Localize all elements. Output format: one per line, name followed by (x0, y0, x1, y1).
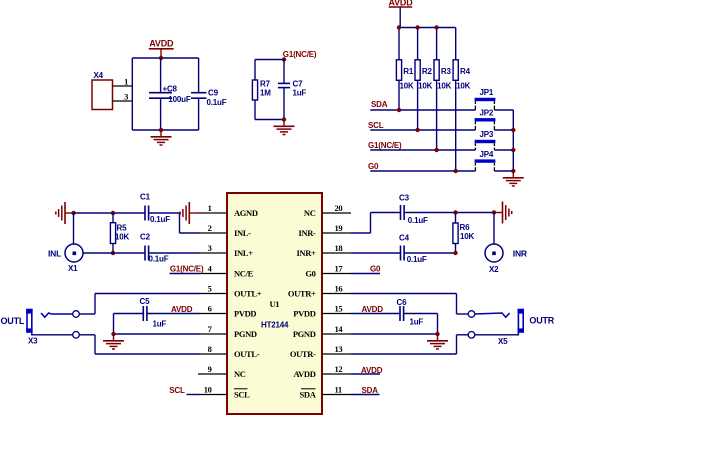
junction (492, 210, 496, 214)
svg-text:0.1uF: 0.1uF (207, 98, 227, 107)
wire (83, 252, 145, 254)
svg-text:0.1uF: 0.1uF (408, 216, 428, 225)
svg-text:OUTR: OUTR (529, 316, 554, 326)
wire (255, 60, 284, 120)
svg-text:14: 14 (335, 324, 344, 334)
resistor R4 10K (453, 28, 471, 172)
wire (351, 294, 468, 315)
svg-text:AVDD: AVDD (361, 366, 383, 375)
node G1 junction (282, 57, 286, 61)
capacitor C9 0.1uF (191, 58, 227, 130)
svg-text:PGND: PGND (234, 329, 257, 339)
junction (453, 210, 457, 214)
svg-text:SCL: SCL (234, 390, 250, 400)
junction (111, 251, 115, 255)
svg-text:PGND: PGND (293, 329, 316, 339)
svg-text:R7: R7 (260, 80, 271, 89)
capacitor C3 0.1uF (399, 194, 428, 225)
svg-text:OUTL: OUTL (1, 316, 25, 326)
svg-text:OUTR+: OUTR+ (288, 289, 316, 299)
wire (149, 213, 199, 233)
net label G0 pin17 (351, 264, 381, 273)
node G0 (368, 162, 475, 173)
wire (79, 294, 199, 315)
capacitor C5 1uF (140, 297, 200, 329)
svg-text:0.1uF: 0.1uF (407, 255, 427, 264)
ground (274, 120, 295, 135)
svg-text:R5: R5 (117, 223, 128, 232)
svg-text:SDA: SDA (362, 386, 379, 395)
svg-text:OUTR-: OUTR- (290, 349, 316, 359)
svg-text:AGND: AGND (234, 208, 258, 218)
junction (397, 25, 401, 29)
svg-text:18: 18 (335, 243, 343, 253)
junction (453, 251, 457, 255)
net label AVDD pin6 (171, 305, 193, 314)
wire (399, 27, 456, 29)
svg-text:R3: R3 (441, 67, 452, 76)
svg-text:10K: 10K (400, 82, 414, 91)
ground AGND left (56, 202, 74, 224)
node AVDD junction (159, 56, 163, 60)
junction (415, 25, 419, 29)
svg-text:C2: C2 (140, 233, 151, 242)
svg-text:JP4: JP4 (480, 150, 494, 159)
node G1(NC/E) (368, 141, 475, 152)
svg-text:SCL: SCL (368, 121, 384, 130)
svg-text:INR+: INR+ (296, 248, 316, 258)
jack X1 INL (48, 213, 83, 273)
capacitor C4 0.1uF (399, 234, 427, 264)
svg-text:3: 3 (208, 243, 212, 253)
svg-text:C7: C7 (293, 80, 304, 89)
svg-text:0.1uF: 0.1uF (150, 215, 170, 224)
svg-text:10K: 10K (115, 233, 129, 242)
svg-text:X5: X5 (498, 337, 508, 346)
svg-text:SCL: SCL (169, 386, 185, 395)
ground AGND pin1 (180, 202, 199, 224)
junction (111, 211, 115, 215)
svg-text:INR: INR (513, 248, 527, 258)
ground (427, 334, 448, 349)
svg-text:16: 16 (335, 284, 343, 294)
jack X3 OUTL (1, 309, 80, 346)
svg-text:SDA: SDA (371, 100, 388, 109)
svg-text:11: 11 (335, 385, 342, 395)
capacitor C7 1uF (278, 60, 307, 120)
svg-text:1uF: 1uF (293, 88, 307, 97)
svg-text:PVDD: PVDD (293, 309, 315, 319)
svg-text:G1(NC/E): G1(NC/E) (283, 50, 317, 59)
jack X2 INR (485, 213, 527, 274)
jumper JP4 (475, 150, 514, 171)
wire (351, 252, 401, 254)
svg-text:2: 2 (208, 223, 212, 233)
svg-text:0.1uF: 0.1uF (149, 255, 169, 264)
svg-text:10K: 10K (437, 82, 451, 91)
capacitor C1 0.1uF (140, 193, 170, 224)
junction (435, 332, 439, 336)
net label AVDD pin15 (362, 305, 384, 314)
wire (404, 252, 455, 254)
svg-text:17: 17 (335, 264, 344, 274)
svg-text:5: 5 (208, 284, 212, 294)
svg-text:NC: NC (234, 369, 246, 379)
svg-text:1: 1 (208, 203, 212, 213)
svg-text:AVDD: AVDD (149, 38, 174, 48)
jumper JP3 (475, 130, 514, 150)
resistor R7 1M (252, 80, 271, 101)
wire (79, 335, 199, 354)
svg-text:R1: R1 (403, 67, 414, 76)
svg-text:JP3: JP3 (480, 130, 494, 139)
node SDA (370, 100, 475, 112)
svg-text:9: 9 (208, 364, 212, 374)
svg-text:8: 8 (208, 344, 212, 354)
connector X4 (92, 71, 132, 110)
ground (151, 130, 172, 145)
svg-text:12: 12 (335, 364, 343, 374)
svg-text:INL: INL (48, 248, 61, 258)
jumper JP2 (475, 109, 514, 131)
svg-text:1: 1 (124, 77, 128, 87)
svg-text:R6: R6 (460, 223, 471, 232)
svg-text:C1: C1 (140, 193, 151, 202)
svg-text:13: 13 (335, 344, 343, 354)
net label G1(NC/E) (283, 50, 317, 59)
ground (103, 334, 124, 349)
wire (132, 58, 198, 130)
net label AVDD pin12 (351, 366, 383, 375)
op IC U1 HT2144 (198, 193, 351, 414)
svg-text:4: 4 (208, 264, 213, 274)
svg-text:AVDD: AVDD (293, 369, 315, 379)
ground AGND right (494, 202, 512, 224)
resistor R3 10K (434, 28, 452, 151)
svg-text:NC/E: NC/E (234, 269, 254, 279)
svg-text:10K: 10K (418, 82, 432, 91)
svg-text:R4: R4 (460, 67, 471, 76)
svg-text:C4: C4 (399, 234, 410, 243)
capacitor C8 100uF (149, 58, 191, 130)
svg-text:PVDD: PVDD (234, 309, 256, 319)
capacitor C2 0.1uF (140, 233, 169, 264)
svg-text:X2: X2 (489, 265, 499, 274)
junction (159, 128, 163, 132)
svg-text:JP2: JP2 (480, 109, 494, 118)
svg-text:10K: 10K (460, 232, 474, 241)
svg-text:INL+: INL+ (234, 248, 253, 258)
svg-text:OUTL-: OUTL- (234, 349, 260, 359)
node SCL (368, 121, 475, 132)
svg-text:G0: G0 (370, 264, 381, 273)
svg-text:100uF: 100uF (168, 95, 190, 104)
svg-text:7: 7 (208, 324, 213, 334)
capacitor C6 1uF (351, 298, 423, 327)
svg-text:HT2144: HT2144 (261, 321, 289, 330)
svg-text:C9: C9 (208, 89, 219, 98)
svg-text:10: 10 (204, 385, 212, 395)
junction (282, 117, 286, 121)
svg-text:20: 20 (335, 203, 343, 213)
svg-text:1M: 1M (260, 88, 271, 97)
net label G1(NC/E) pin4 (170, 264, 204, 273)
wire ground bus (511, 110, 515, 173)
wire (149, 252, 199, 254)
svg-text:SDA: SDA (300, 390, 317, 400)
jumper JP1 (475, 88, 514, 110)
svg-text:6: 6 (208, 304, 212, 314)
net label SDA pin11 (351, 386, 380, 395)
wire (404, 212, 494, 214)
svg-text:15: 15 (335, 304, 343, 314)
junction (111, 332, 115, 336)
svg-text:OUTL+: OUTL+ (234, 289, 262, 299)
ground (503, 171, 524, 186)
resistor R1 10K (396, 28, 414, 111)
svg-text:10K: 10K (456, 82, 470, 91)
wire (351, 213, 401, 234)
net label SCL pin10 (169, 386, 199, 395)
power AVDD (388, 0, 413, 27)
svg-text:INR-: INR- (298, 228, 316, 238)
svg-text:JP1: JP1 (480, 88, 494, 97)
svg-text:X1: X1 (68, 264, 78, 273)
svg-text:G1(NC/E): G1(NC/E) (368, 141, 402, 150)
svg-text:AVDD: AVDD (362, 305, 384, 314)
svg-text:G0: G0 (305, 269, 315, 279)
resistor R2 10K (415, 28, 433, 131)
svg-text:+C8: +C8 (163, 85, 178, 94)
wire (114, 314, 200, 335)
svg-text:INL-: INL- (234, 228, 251, 238)
svg-text:1uF: 1uF (153, 319, 167, 328)
svg-text:R2: R2 (422, 67, 433, 76)
svg-text:G0: G0 (368, 162, 379, 171)
resistor R6 10K (453, 213, 475, 254)
junction (434, 25, 438, 29)
svg-text:X3: X3 (28, 337, 38, 346)
svg-text:19: 19 (335, 223, 343, 233)
svg-text:C5: C5 (140, 297, 151, 306)
svg-text:C3: C3 (399, 194, 410, 203)
power AVDD (149, 38, 174, 58)
junction (71, 211, 75, 215)
svg-text:AVDD: AVDD (171, 305, 193, 314)
svg-text:U1: U1 (270, 299, 280, 309)
wire (351, 335, 468, 354)
svg-text:C6: C6 (397, 298, 408, 307)
svg-text:3: 3 (124, 92, 128, 102)
wire (351, 314, 438, 335)
wire (74, 212, 146, 214)
svg-text:X4: X4 (94, 71, 104, 80)
svg-text:G1(NC/E): G1(NC/E) (170, 264, 204, 273)
resistor R5 10K (110, 213, 129, 253)
jack X5 OUTR (468, 309, 555, 346)
svg-text:NC: NC (304, 208, 316, 218)
svg-text:1uF: 1uF (410, 317, 424, 326)
